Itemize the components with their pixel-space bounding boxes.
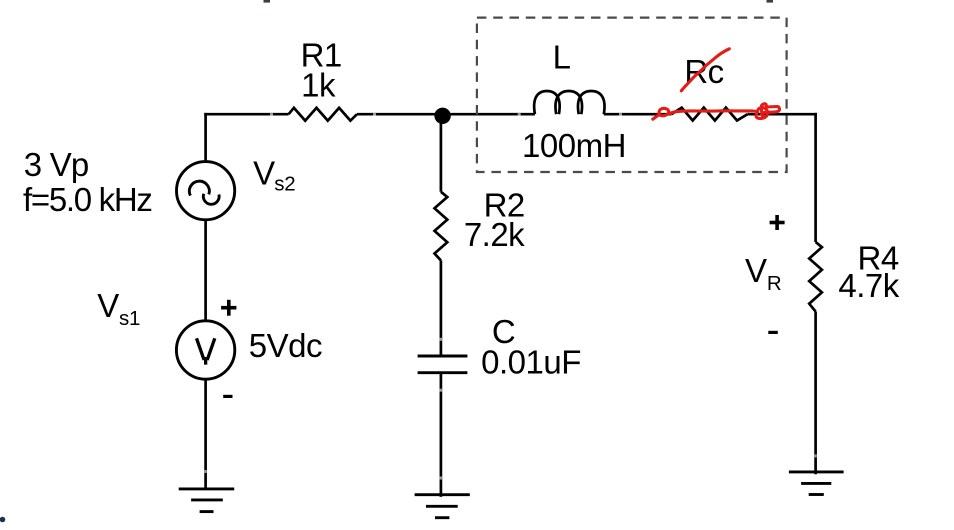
svg-text:5Vdc: 5Vdc — [249, 327, 322, 364]
svg-text:R: R — [767, 272, 782, 295]
capacitor C plates — [418, 356, 468, 373]
wire R4 to ground — [814, 312, 817, 475]
svg-text:V: V — [97, 287, 119, 324]
minus sign VS1 — [223, 395, 232, 398]
wire inductor to Rc — [604, 113, 672, 116]
wire node to inductor — [443, 113, 535, 116]
svg-text:f=5.0 kHz: f=5.0 kHz — [23, 181, 152, 218]
resistor R2 — [435, 192, 448, 261]
inductor L — [534, 91, 604, 114]
VS2 sine symbol — [189, 181, 209, 195]
source VS1 circle (DC) — [176, 321, 234, 379]
pin tick marks — [204, 113, 817, 480]
svg-text:s1: s1 — [119, 307, 140, 330]
resistor Rc — [671, 108, 747, 121]
wire right vertical to R4 — [814, 113, 817, 242]
wire VS2 to VS1 — [204, 220, 207, 321]
svg-text:1k: 1k — [301, 66, 336, 103]
minus sign VR — [768, 331, 778, 334]
svg-text:Rc: Rc — [684, 53, 723, 90]
wire VS1 to ground — [204, 379, 207, 489]
wire capacitor to ground — [440, 373, 443, 497]
plus sign VS1 — [221, 300, 236, 316]
wire R2 to capacitor — [440, 260, 443, 355]
svg-text:s2: s2 — [274, 173, 295, 196]
svg-text:4.7k: 4.7k — [838, 267, 899, 304]
wire left vertical top — [204, 113, 207, 162]
resistor R1 — [289, 108, 357, 121]
plus sign VR — [770, 215, 785, 230]
ground G3 (R4) — [789, 472, 844, 495]
red cross-out line over Rc resistor — [653, 104, 780, 119]
node A junction dot — [434, 108, 450, 124]
ground G2 (C) — [415, 495, 470, 518]
red strike through Rc label — [681, 49, 729, 91]
svg-text:L: L — [553, 38, 571, 75]
svg-text:100mH: 100mH — [522, 127, 626, 164]
svg-text:V: V — [253, 154, 275, 191]
wire node to R2 — [440, 114, 443, 192]
stray mark top left — [264, 0, 271, 3]
resistor R4 — [809, 242, 822, 312]
wire top horizontal left segment — [204, 113, 288, 116]
svg-text:3 Vp: 3 Vp — [24, 146, 89, 183]
svg-text:7.2k: 7.2k — [464, 216, 525, 253]
svg-text:0.01uF: 0.01uF — [481, 343, 581, 380]
svg-text:V: V — [745, 252, 767, 289]
dashed selection box around L and Rc — [477, 18, 787, 172]
VS1 V glyph — [197, 338, 215, 364]
source VS2 circle (AC) — [177, 162, 235, 220]
ground G1 (VS1) — [179, 489, 235, 512]
wire R1 to node — [357, 113, 443, 116]
wire Rc to right corner — [748, 113, 818, 116]
stray mark top right — [767, 0, 774, 3]
stray dot bottom left — [0, 517, 5, 523]
